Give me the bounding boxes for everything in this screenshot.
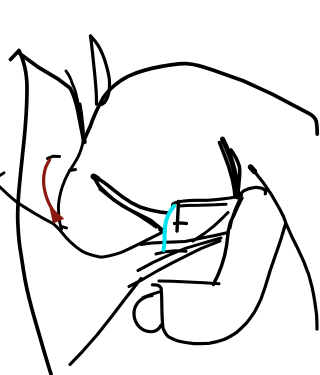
face side line xyxy=(58,104,83,230)
finger steep lower diagonal xyxy=(70,279,141,365)
face line jog tick xyxy=(70,170,76,171)
eyebrow stroke right xyxy=(223,139,238,197)
nose bottom line xyxy=(141,233,228,245)
nose right side continuing as inner hand line xyxy=(214,198,243,285)
left eye tip xyxy=(94,177,98,179)
left face outline stroke xyxy=(11,51,52,375)
right ear left branch xyxy=(91,36,97,104)
left edge small tick xyxy=(0,173,4,176)
right ear right branch xyxy=(91,36,110,105)
eyebrow stroke left xyxy=(220,143,236,198)
left ear inner diagonal and head top curve xyxy=(19,53,317,141)
nose inner foot stroke xyxy=(175,221,187,225)
eye corner junction knot xyxy=(161,230,165,232)
right eye dash xyxy=(240,187,266,194)
small dash below mouth xyxy=(156,251,186,254)
small flat stroke left of chin xyxy=(143,292,159,298)
cheek and jaw curve xyxy=(0,187,164,257)
nose top edge xyxy=(172,195,241,209)
red stroke xyxy=(44,160,58,216)
eyebrow short stroke upper right xyxy=(231,150,240,188)
hand finger right long line xyxy=(250,167,317,330)
steep diagonal to nose corner xyxy=(193,213,228,242)
cyan stroke xyxy=(164,206,175,250)
knot at V bottom xyxy=(84,138,85,142)
finger top diagonal xyxy=(138,238,221,271)
red arrowhead xyxy=(51,209,64,223)
tick near face-cheek junction xyxy=(62,227,67,229)
thumb circle xyxy=(134,296,161,332)
nose right side echo xyxy=(230,199,240,228)
left eye lower lid echo xyxy=(100,189,156,227)
nose inner second horizontal xyxy=(179,204,226,206)
black dash above red stroke xyxy=(48,156,60,158)
short echo stroke below left ear xyxy=(66,71,84,139)
nose inner vertical stroke xyxy=(177,202,179,232)
left eye lower lid xyxy=(95,179,164,232)
left eye upper lid xyxy=(95,177,168,214)
finger middle diagonal xyxy=(129,241,220,287)
hand finger right line blunt start xyxy=(251,167,255,172)
hand lower outline branch and chin U curve xyxy=(153,224,286,344)
horizontal line above chin xyxy=(159,281,219,284)
